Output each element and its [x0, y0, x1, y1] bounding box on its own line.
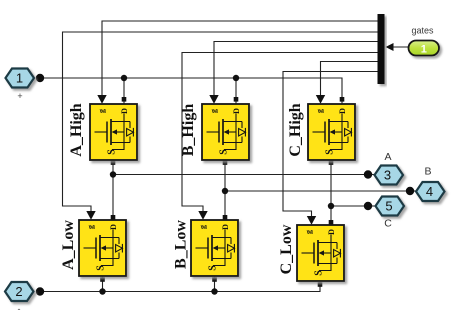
pin square B_High D: [234, 97, 239, 102]
svg-text:B: B: [424, 166, 431, 178]
pin square C_High D: [340, 97, 345, 102]
port 4 connection dot: [406, 187, 414, 195]
svg-text:5: 5: [385, 199, 392, 214]
svg-text:A_High: A_High: [68, 103, 85, 156]
wire: phase C line to port 5: [331, 205, 376, 207]
wire: gate line C_High: [321, 62, 378, 97]
wire: B_High drain stem: [235, 78, 237, 104]
junction dot phase A node: [110, 171, 116, 177]
port 1 connection dot: [36, 74, 44, 82]
mosfet block A_High: [68, 103, 137, 160]
mosfet block A_Low: [60, 220, 126, 276]
pin square A_High D: [122, 97, 127, 102]
port 5 connection dot: [364, 202, 372, 210]
output port 4: [416, 182, 445, 201]
wire: gate line B_Low: [182, 53, 378, 213]
arrow into C_High gate: [316, 95, 325, 104]
svg-text:gates: gates: [411, 26, 434, 36]
wire: gate line A_Low: [63, 32, 378, 212]
svg-text:C_Low: C_Low: [278, 224, 295, 274]
mosfet block B_High: [180, 104, 249, 160]
pin square C_Low S: [318, 282, 323, 287]
arrow into C_Low gate: [307, 216, 316, 225]
pin square B_High S: [223, 160, 228, 165]
port 3 connection dot: [364, 170, 372, 178]
wire: gates port to demux: [392, 46, 409, 48]
svg-text:1: 1: [421, 43, 427, 55]
junction dot on + bus at B_High D: [233, 75, 239, 81]
wire: phase A vertical A_High S to A_Low D: [112, 160, 114, 220]
wire: phase B vertical B_High S to B_Low D: [224, 160, 226, 220]
wire: + bus from port 1 to C_High drain: [40, 78, 342, 104]
input port 1: [6, 69, 35, 88]
pin square C_Low D: [329, 220, 334, 225]
wire: gate line A_High: [102, 21, 378, 96]
pin square A_High S: [111, 160, 116, 165]
junction dot on - bus at B_Low S: [211, 288, 217, 294]
mosfet block C_High: [287, 103, 355, 160]
mosfet block B_Low: [173, 220, 239, 276]
wire: A_Low source stem: [102, 276, 104, 292]
demux bar for gates: [378, 14, 385, 84]
wire: phase C vertical C_High S to C_Low D: [330, 160, 332, 225]
wire: phase B line to port 4: [225, 190, 416, 192]
wire: port 4 stub: [410, 190, 416, 192]
output port 5: [376, 197, 405, 216]
junction dot on + bus at A_High D: [121, 75, 127, 81]
wire: phase A line to port 3: [113, 174, 375, 176]
svg-text:A: A: [384, 151, 391, 163]
svg-text:A_Low: A_Low: [60, 220, 77, 270]
pin square C_High S: [329, 160, 334, 165]
input port 2: [5, 282, 34, 301]
junction dot phase C node: [328, 203, 334, 209]
wire: port 3 stub: [368, 174, 375, 176]
wire: A_High drain stem: [123, 78, 125, 104]
wire: - bus from port 2 to C_Low source: [40, 282, 320, 292]
svg-text:B_Low: B_Low: [173, 220, 190, 269]
pin square B_Low S: [212, 277, 217, 282]
wire: port 5 stub: [368, 205, 376, 207]
svg-text:3: 3: [384, 168, 391, 183]
svg-text:-: -: [18, 304, 21, 314]
wire: B_Low source stem: [214, 276, 216, 292]
arrow into A_High gate: [97, 95, 106, 104]
arrow into B_High gate: [209, 95, 218, 104]
wire: gate line B_High: [214, 42, 378, 97]
svg-text:+: +: [17, 91, 22, 101]
arrow from gates port into demux: [386, 43, 394, 51]
junction dot on - bus at A_Low S: [99, 288, 105, 294]
pin square B_Low D: [223, 215, 228, 220]
pin square A_Low D: [111, 215, 116, 220]
port 2 connection dot: [36, 287, 44, 295]
output port 3: [375, 166, 404, 185]
wire: gate line C_Low: [283, 72, 378, 218]
svg-text:2: 2: [15, 284, 22, 299]
pin square A_Low S: [100, 277, 105, 282]
arrow into A_Low gate: [86, 211, 95, 220]
arrow into B_Low gate: [198, 211, 207, 220]
mosfet block C_Low: [278, 224, 344, 281]
junction dot phase B node: [222, 188, 228, 194]
svg-text:C: C: [384, 218, 392, 230]
svg-text:4: 4: [426, 184, 433, 199]
svg-text:1: 1: [16, 71, 23, 86]
svg-text:B_High: B_High: [180, 104, 197, 157]
svg-text:C_High: C_High: [287, 103, 304, 156]
gates input port: [409, 41, 440, 56]
